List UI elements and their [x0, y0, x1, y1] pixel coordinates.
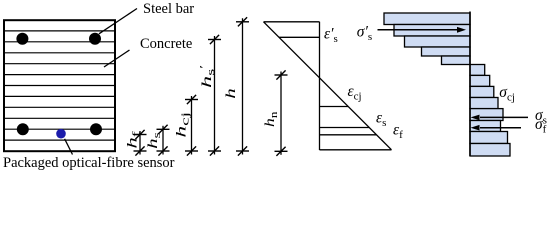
- svg-text:h: h: [223, 88, 238, 99]
- svg-text:σcj: σcj: [499, 84, 515, 104]
- svg-text:Steel bar: Steel bar: [143, 1, 194, 17]
- svg-text:Packaged optical-fibre sensor: Packaged optical-fibre sensor: [3, 155, 175, 171]
- svg-text:hs′: hs′: [199, 65, 217, 88]
- svg-text:Concrete: Concrete: [140, 36, 192, 52]
- svg-text:hcj: hcj: [174, 112, 191, 138]
- svg-text:σ′s: σ′s: [357, 23, 372, 43]
- svg-text:hf: hf: [125, 131, 142, 149]
- svg-text:hn: hn: [263, 111, 280, 127]
- svg-text:εs: εs: [376, 110, 386, 130]
- svg-text:ε′s: ε′s: [324, 26, 338, 46]
- svg-text:εf: εf: [393, 122, 403, 142]
- svg-text:hs: hs: [145, 132, 163, 148]
- svg-text:εcj: εcj: [348, 83, 362, 103]
